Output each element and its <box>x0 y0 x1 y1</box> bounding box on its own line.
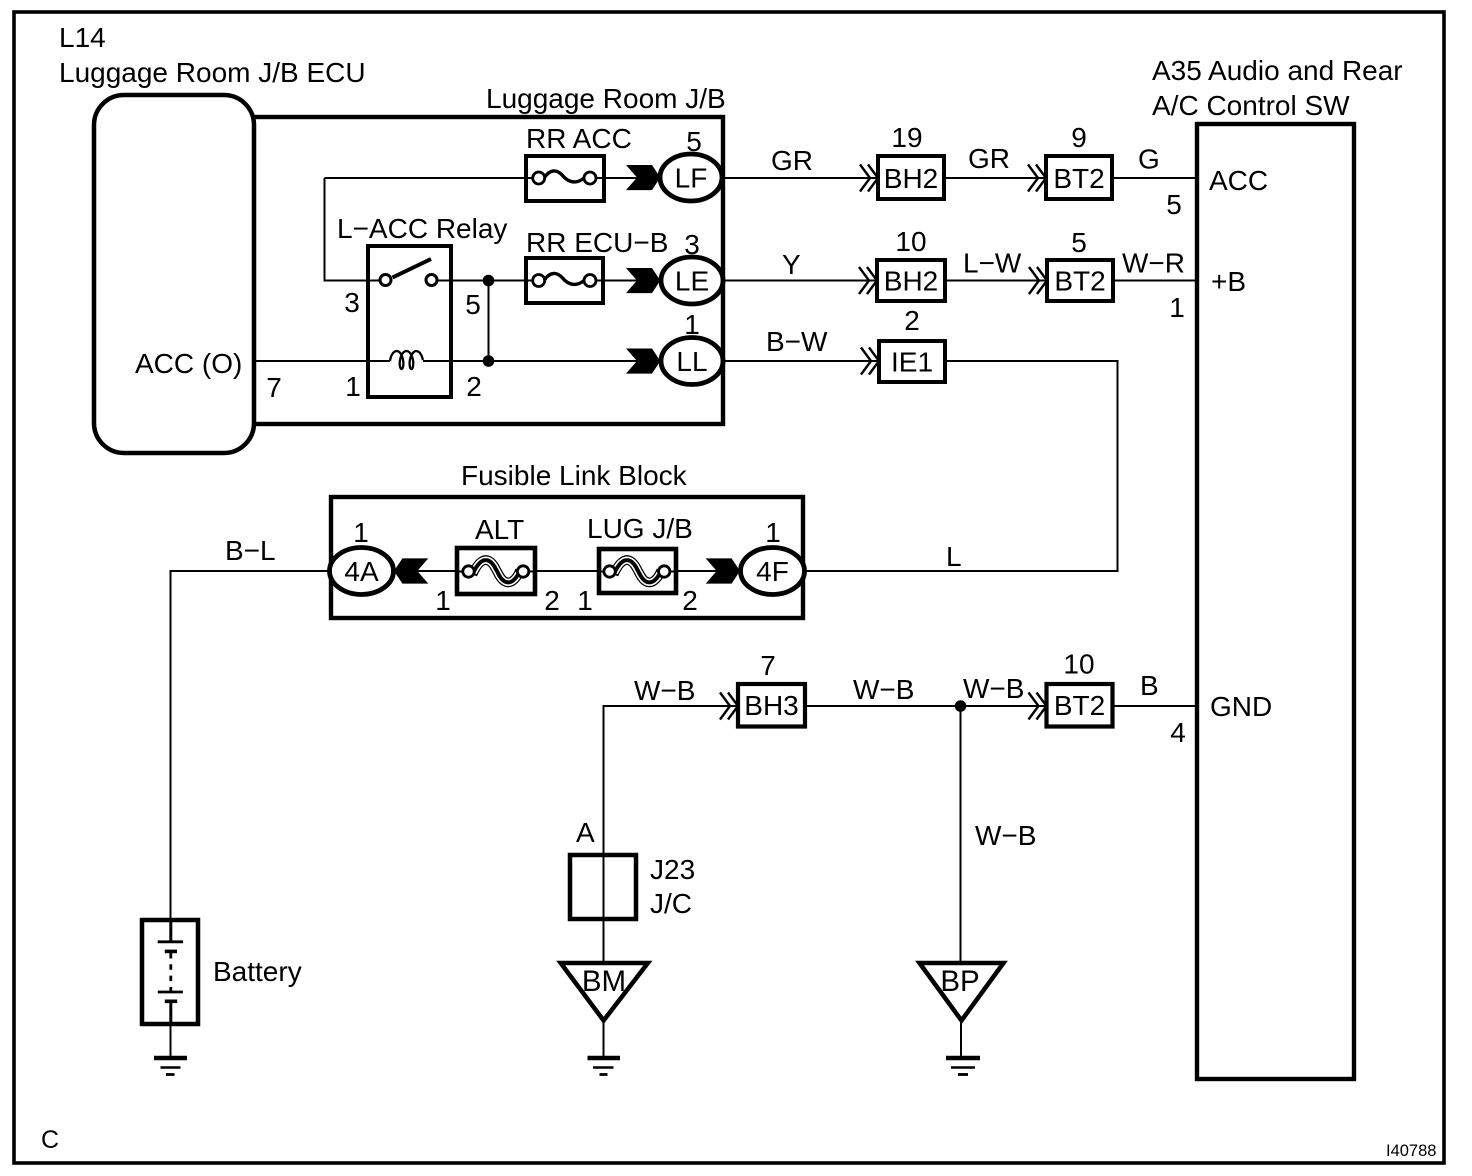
svg-text:Y: Y <box>782 249 801 280</box>
svg-text:LL: LL <box>676 346 707 377</box>
svg-text:Fusible Link Block: Fusible Link Block <box>461 460 688 491</box>
svg-text:1: 1 <box>435 585 451 616</box>
connector BT2 row1 <box>1046 156 1112 199</box>
svg-text:RR ACC: RR ACC <box>526 123 632 154</box>
connector BT2 bottom <box>1047 684 1113 727</box>
svg-text:4A: 4A <box>344 556 379 587</box>
fuse RR ECU-B <box>526 258 603 303</box>
chevrons BT2 bottom <box>1029 693 1047 720</box>
fuse RR ACC <box>526 156 604 201</box>
svg-text:LE: LE <box>675 266 709 297</box>
wire row3 ACC(O) B-W <box>253 361 1118 571</box>
oval 4A <box>330 548 394 595</box>
arrow out of 4A <box>394 558 428 583</box>
svg-text:2: 2 <box>544 585 560 616</box>
fusible link LUG J/B <box>599 549 676 593</box>
svg-text:1: 1 <box>345 371 361 402</box>
junction dot relay pin2 <box>483 355 495 367</box>
oval 4F <box>741 548 805 595</box>
svg-text:1: 1 <box>353 517 369 548</box>
battery internals <box>169 921 172 941</box>
svg-text:Battery: Battery <box>213 956 302 987</box>
J23 junction box <box>570 855 636 919</box>
svg-text:W−B: W−B <box>853 674 914 705</box>
svg-text:BP: BP <box>940 965 979 998</box>
svg-text:+B: +B <box>1211 266 1246 297</box>
svg-text:RR ECU−B: RR ECU−B <box>526 227 668 258</box>
svg-text:1: 1 <box>577 585 593 616</box>
svg-text:L−W: L−W <box>963 248 1022 279</box>
svg-text:B: B <box>1140 670 1159 701</box>
ground symbol BM <box>588 1056 621 1061</box>
svg-text:W−R: W−R <box>1122 248 1185 279</box>
connector BH2 row2 <box>877 260 945 301</box>
svg-text:W−B: W−B <box>975 820 1036 851</box>
svg-text:BH2: BH2 <box>884 266 938 297</box>
arrow into 4F <box>706 558 740 583</box>
fusible link ALT <box>457 548 535 594</box>
svg-text:L14: L14 <box>59 22 106 53</box>
svg-text:Luggage Room J/B ECU: Luggage Room J/B ECU <box>59 57 366 88</box>
svg-text:5: 5 <box>1166 189 1182 220</box>
svg-text:G: G <box>1138 144 1160 175</box>
svg-text:19: 19 <box>891 122 922 153</box>
junction dot relay pin5 <box>483 275 495 287</box>
ground triangle BM <box>561 963 648 1021</box>
svg-text:BM: BM <box>582 965 626 998</box>
svg-text:L−ACC Relay: L−ACC Relay <box>337 213 507 244</box>
relay switch arm <box>393 259 432 278</box>
connector IE1 <box>879 341 945 382</box>
svg-text:W−B: W−B <box>963 673 1024 704</box>
wire row2 Y <box>437 280 1199 282</box>
svg-text:10: 10 <box>1063 649 1094 680</box>
svg-text:A: A <box>576 817 595 848</box>
arrow into LF <box>626 165 660 190</box>
svg-text:J/C: J/C <box>650 888 692 919</box>
wire junction to BP <box>960 706 962 963</box>
wire BM to ground <box>603 1018 605 1056</box>
connector BT2 row2 <box>1047 260 1113 301</box>
svg-text:I40788: I40788 <box>1386 1142 1436 1160</box>
wire row1 GR <box>325 177 1200 179</box>
svg-text:GR: GR <box>771 145 813 176</box>
oval LL <box>661 338 723 385</box>
svg-text:W−B: W−B <box>634 675 695 706</box>
ground triangle BP <box>920 963 1004 1021</box>
svg-text:7: 7 <box>760 650 776 681</box>
svg-text:BT2: BT2 <box>1054 690 1105 721</box>
svg-text:A35 Audio and Rear: A35 Audio and Rear <box>1152 55 1403 86</box>
oval LF <box>660 154 722 201</box>
svg-text:GR: GR <box>968 143 1010 174</box>
svg-text:IE1: IE1 <box>891 347 933 378</box>
Fusible Link Block box <box>331 497 803 618</box>
svg-text:2: 2 <box>682 585 698 616</box>
chevrons IE1 <box>861 348 879 375</box>
wire junction vertical relay 5-2 <box>488 281 490 362</box>
svg-text:2: 2 <box>466 371 482 402</box>
svg-text:2: 2 <box>904 305 920 336</box>
svg-text:L: L <box>946 541 962 572</box>
svg-text:1: 1 <box>765 517 781 548</box>
arrow into LE <box>626 268 660 293</box>
svg-text:GND: GND <box>1210 691 1272 722</box>
wire J23 to BM <box>603 855 605 963</box>
chevrons BH3 <box>720 693 738 720</box>
junction dot W-B <box>955 700 967 712</box>
svg-text:ACC (O): ACC (O) <box>135 348 242 379</box>
svg-text:LF: LF <box>675 163 708 194</box>
ground symbol BP <box>946 1056 980 1061</box>
svg-text:BT2: BT2 <box>1053 163 1104 194</box>
wire W-B bottom row <box>604 706 1200 855</box>
svg-text:ALT: ALT <box>475 514 524 545</box>
A35 connector box <box>1197 124 1354 1079</box>
chevrons BH2 row2 <box>859 267 877 294</box>
svg-text:3: 3 <box>344 287 360 318</box>
relay switch contact left <box>380 275 391 286</box>
connector BH2 row1 <box>878 156 944 199</box>
relay coil <box>390 351 423 369</box>
svg-text:4: 4 <box>1170 717 1186 748</box>
svg-text:5: 5 <box>465 289 481 320</box>
svg-text:A/C Control SW: A/C Control SW <box>1152 90 1350 121</box>
svg-text:9: 9 <box>1071 122 1087 153</box>
Luggage Room J/B box <box>253 117 723 424</box>
svg-text:ACC: ACC <box>1209 165 1268 196</box>
svg-text:7: 7 <box>266 372 282 403</box>
svg-text:1: 1 <box>1169 292 1185 323</box>
ground symbol battery <box>154 1056 187 1061</box>
svg-text:C: C <box>41 1126 59 1154</box>
oval LE <box>661 257 723 304</box>
relay L-ACC box <box>368 246 451 397</box>
battery box <box>142 920 198 1024</box>
chevrons BT2 row2 <box>1029 267 1047 294</box>
svg-text:B−W: B−W <box>766 326 828 357</box>
svg-text:J23: J23 <box>650 854 695 885</box>
wire BP to ground <box>960 1018 962 1056</box>
svg-text:BT2: BT2 <box>1054 266 1105 297</box>
wire fusible row <box>392 570 806 572</box>
wire vertical to relay pin3 <box>325 178 382 281</box>
chevrons BT2 row1 <box>1028 165 1046 192</box>
svg-text:4F: 4F <box>756 556 789 587</box>
ECU connector rounded box <box>94 95 254 453</box>
svg-text:10: 10 <box>895 226 926 257</box>
connector BH3 <box>738 684 805 727</box>
arrow into LL <box>626 349 660 374</box>
svg-text:BH3: BH3 <box>744 690 798 721</box>
svg-text:5: 5 <box>1071 227 1087 258</box>
svg-text:BH2: BH2 <box>884 163 938 194</box>
svg-text:LUG J/B: LUG J/B <box>587 513 693 544</box>
relay switch contact right <box>426 275 437 286</box>
wire B-L battery <box>171 571 332 1056</box>
chevrons BH2 row1 <box>860 165 878 192</box>
svg-text:B−L: B−L <box>225 535 276 566</box>
svg-text:Luggage Room J/B: Luggage Room J/B <box>486 83 726 114</box>
